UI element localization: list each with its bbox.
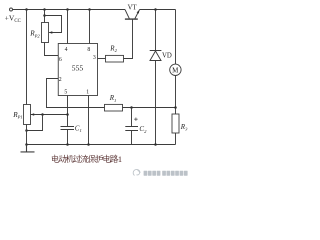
svg-text:M: M <box>172 67 179 75</box>
wire diode cathode <box>155 10 157 51</box>
ground <box>21 145 35 152</box>
wire R3 bottom <box>175 133 177 145</box>
junction rail/left branch <box>25 8 28 11</box>
wire R1 to sense node <box>123 107 176 109</box>
capacitor C1 <box>61 127 75 130</box>
wire Rp1 bottom to ground <box>26 125 28 145</box>
junction C2 tap <box>130 106 133 109</box>
wire Rp2 wiper loop <box>45 16 62 33</box>
wire VT to motor branch <box>140 9 176 11</box>
svg-text:1: 1 <box>118 155 122 164</box>
svg-text:R1: R1 <box>109 94 117 103</box>
svg-text:RP1: RP1 <box>12 111 23 120</box>
wire pin 1 to ground rail <box>88 96 90 145</box>
svg-text:R2: R2 <box>109 44 117 53</box>
junction diode/ground <box>154 143 157 146</box>
op-amp U1 555 timer <box>58 44 97 96</box>
transistor VT collector diagonal <box>125 10 129 19</box>
motor M <box>170 64 181 75</box>
svg-text:R3: R3 <box>180 123 188 132</box>
svg-text:C2: C2 <box>139 125 147 134</box>
svg-text:VT: VT <box>128 5 138 12</box>
svg-text:5: 5 <box>64 90 67 96</box>
wire motor top <box>175 10 177 65</box>
wire Rp1 wiper tie-down <box>27 115 43 131</box>
junction diode branch <box>154 8 157 11</box>
wire pin 4 to rail <box>67 10 69 44</box>
svg-text:RP2: RP2 <box>29 29 40 38</box>
junction pin1/ground <box>87 143 90 146</box>
wire pin 5 to C1 <box>67 96 69 127</box>
svg-text:C1: C1 <box>75 124 82 133</box>
wire pin 2 to R1 <box>47 79 105 108</box>
junction rail/pin8 <box>88 8 91 11</box>
svg-text:555: 555 <box>72 64 84 73</box>
caption 电动机过流保护电路1 <box>52 155 122 164</box>
svg-text:2: 2 <box>59 77 62 83</box>
wire R2 to VT base <box>124 19 133 58</box>
junction rail/pin4 <box>66 8 69 11</box>
wire diode anode to ground rail <box>155 61 157 145</box>
arrowhead VT emitter <box>137 10 140 14</box>
transistor VT emitter diagonal <box>135 10 140 19</box>
svg-text:4: 4 <box>65 47 68 53</box>
svg-text:8: 8 <box>87 47 90 53</box>
junction Rp2 wiper tie <box>43 14 46 17</box>
junction ground <box>25 143 28 146</box>
wire motor bottom to R3 <box>175 76 177 115</box>
svg-text:6: 6 <box>59 57 62 63</box>
junction rail/Rp2 <box>43 8 46 11</box>
wire pin 3 to R2 <box>98 58 106 60</box>
transistor VT base bar <box>125 18 138 20</box>
resistor R3 <box>172 114 179 133</box>
svg-text:3: 3 <box>93 55 96 61</box>
watermark text <box>144 171 188 176</box>
svg-text:+VCC: +VCC <box>5 13 21 24</box>
arrowhead Rp2 wiper <box>49 31 53 34</box>
wire pin 8 to rail <box>89 10 91 44</box>
wire Rp2 top <box>44 10 46 23</box>
watermark logo <box>133 169 140 175</box>
wire +Vcc top rail <box>13 9 125 11</box>
arrowhead Rp1 wiper <box>31 113 35 116</box>
wire C1 to ground rail <box>67 130 69 145</box>
potentiometer RP1 <box>24 105 31 125</box>
wire Rp1 wiper to pin5 node <box>31 114 68 116</box>
label C2 plus <box>134 118 137 121</box>
resistor R2 <box>106 55 124 62</box>
resistor R1 <box>105 104 123 111</box>
junction wiper tie <box>41 113 44 116</box>
junction Rp1 bottom <box>25 129 28 132</box>
wire C2 top <box>131 108 133 127</box>
wire Rp2 bottom to pin 6 <box>45 43 59 56</box>
terminal +Vcc <box>10 8 13 11</box>
svg-text:VD: VD <box>162 53 172 60</box>
wire C2 bottom to ground rail <box>131 131 133 145</box>
wire ground rail <box>27 144 176 146</box>
potentiometer RP2 <box>42 23 49 43</box>
junction C1/ground <box>66 143 69 146</box>
junction wiper/C1 node <box>66 113 69 116</box>
wire left branch upper <box>26 10 28 105</box>
diode VD <box>150 51 162 61</box>
svg-text:1: 1 <box>86 90 89 96</box>
junction motor bottom node <box>174 106 177 109</box>
capacitor C2 <box>125 127 138 131</box>
